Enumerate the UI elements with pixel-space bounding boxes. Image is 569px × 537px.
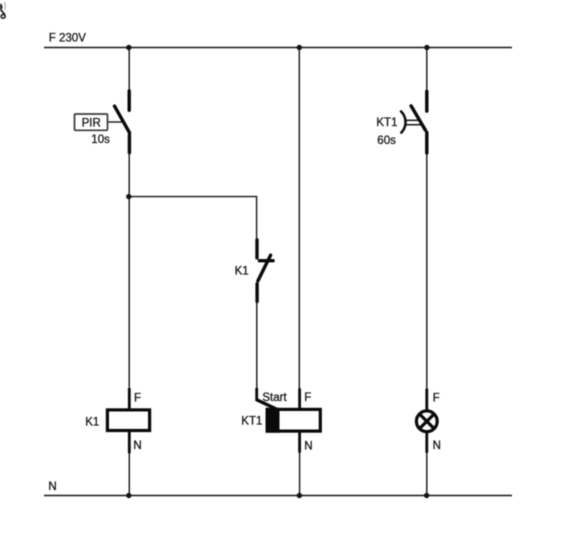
svg-text:KT1: KT1 bbox=[376, 117, 397, 129]
svg-text:N: N bbox=[133, 440, 141, 452]
svg-text:PIR: PIR bbox=[82, 117, 101, 129]
svg-text:F: F bbox=[134, 392, 141, 404]
svg-text:KT1: KT1 bbox=[241, 416, 262, 428]
svg-text:60s: 60s bbox=[377, 135, 396, 147]
svg-text:K1: K1 bbox=[235, 265, 249, 277]
svg-text:F: F bbox=[304, 392, 311, 404]
svg-text:Start: Start bbox=[262, 392, 287, 404]
svg-text:F 230V: F 230V bbox=[49, 33, 86, 45]
svg-text:10s: 10s bbox=[91, 134, 110, 146]
svg-text:N: N bbox=[304, 441, 312, 453]
svg-text:N: N bbox=[433, 440, 441, 452]
svg-text:K1: K1 bbox=[85, 416, 99, 428]
svg-text:F: F bbox=[433, 392, 440, 404]
svg-text:N: N bbox=[48, 481, 56, 493]
